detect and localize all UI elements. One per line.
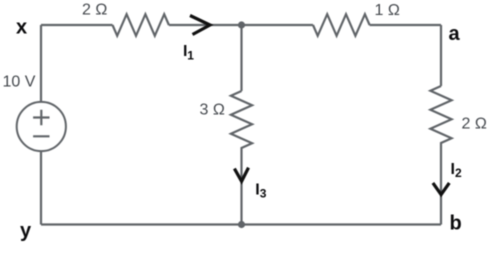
resistor R 1-ohm horizontal — [313, 14, 370, 36]
wire: middle branch top node to 3-ohm — [240, 25, 242, 91]
node junction top (middle) — [238, 21, 245, 28]
svg-text:10 V: 10 V — [3, 74, 36, 91]
wire: top segment x to 2-ohm — [41, 24, 113, 26]
wire: 2-ohm vertical to node b — [440, 150, 442, 225]
voltage source plus sign — [33, 110, 49, 137]
svg-text:2: 2 — [455, 166, 462, 180]
current arrow I2 (down) — [433, 183, 449, 195]
wire: bottom y to b — [41, 223, 441, 225]
svg-text:y: y — [20, 220, 32, 242]
wire: 1-ohm to node a — [370, 24, 441, 26]
voltage source V1 10V circle — [17, 102, 66, 151]
resistor R 2-ohm horizontal — [113, 14, 169, 36]
svg-text:1: 1 — [187, 49, 194, 63]
svg-text:3: 3 — [260, 187, 267, 201]
wire: 2-ohm to node junction to 1-ohm — [169, 24, 313, 26]
node junction bottom (middle) — [238, 221, 245, 228]
resistor R 2-ohm vertical right — [430, 86, 451, 150]
svg-text:2 Ω: 2 Ω — [82, 2, 107, 19]
wire: 3-ohm to bottom node — [240, 153, 242, 225]
svg-text:x: x — [16, 17, 27, 39]
svg-text:b: b — [450, 213, 462, 235]
wire: left branch bottom (source - to y) — [40, 152, 42, 225]
svg-text:3 Ω: 3 Ω — [200, 102, 225, 119]
wire: node a down to 2-ohm vertical — [440, 25, 442, 86]
svg-text:1 Ω: 1 Ω — [375, 2, 400, 19]
resistor R 3-ohm vertical middle — [231, 91, 252, 153]
wire: left branch top (x to source +) — [40, 25, 42, 102]
current arrow I3 (down) — [234, 168, 248, 182]
svg-text:2 Ω: 2 Ω — [462, 116, 487, 133]
svg-text:a: a — [449, 23, 461, 45]
voltage source minus sign — [33, 135, 49, 137]
current arrow I1 (right) — [190, 16, 210, 35]
